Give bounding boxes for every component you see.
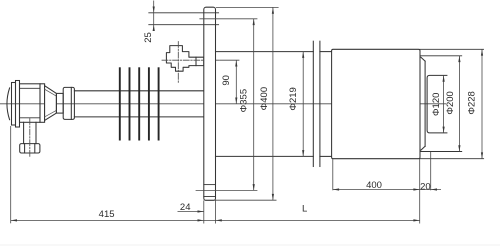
arrows dim phi400 <box>272 7 274 13</box>
arrow dim 24 <box>198 210 204 212</box>
main axis centerline <box>0 103 446 105</box>
svg-text:Φ355: Φ355 <box>239 89 250 112</box>
svg-text:Φ228: Φ228 <box>467 91 478 114</box>
dim 20 right extension <box>430 152 432 190</box>
dim phi400 line <box>272 7 274 200</box>
arrows dim phi120 <box>443 75 445 81</box>
svg-text:L: L <box>302 204 307 215</box>
scan artifact bottom line <box>0 244 500 246</box>
dim phi228 line <box>481 49 483 158</box>
arrows dim L <box>216 219 222 221</box>
dim 90 line <box>235 60 237 104</box>
svg-text:20: 20 <box>420 181 431 192</box>
svg-text:415: 415 <box>99 209 115 220</box>
arrows dim phi219 <box>302 52 304 58</box>
bearing body surface line upper <box>20 87 41 89</box>
flange top edge extension <box>216 6 279 8</box>
svg-text:25: 25 <box>143 32 154 43</box>
svg-text:Φ120: Φ120 <box>431 93 442 116</box>
arrow dim 20 <box>431 188 437 190</box>
arrows dim 25 <box>153 7 155 13</box>
dim 24 line <box>178 211 204 213</box>
grease valve horizontal centerline <box>162 59 220 61</box>
bolt hole bottom upper line <box>204 184 216 186</box>
shaft end disc arc (left face) <box>7 88 10 120</box>
cooling fin 4 <box>148 67 150 140</box>
end cap bottom edge <box>420 151 462 153</box>
drain stem left edge <box>23 122 25 143</box>
nut facet line left <box>24 144 26 153</box>
cooling fin 5 <box>158 67 160 140</box>
flange left face extension down <box>203 200 205 223</box>
bolt hole bottom lower line <box>204 196 216 198</box>
drain stem centerline <box>29 119 31 158</box>
bolt circle line top <box>200 18 257 20</box>
svg-text:Φ200: Φ200 <box>445 91 456 114</box>
arrows dim phi228 <box>481 49 483 55</box>
end cap top chamfer <box>421 57 425 61</box>
flange right face extension down <box>215 200 217 223</box>
neck cylinder <box>56 93 63 113</box>
bearing body cylinder <box>20 84 41 123</box>
grease valve neck joint line <box>195 57 197 65</box>
nut facet line right <box>34 144 36 153</box>
bearing boss outline <box>427 75 447 132</box>
mounting flange plate <box>204 7 216 200</box>
bearing body surface line lower <box>20 117 41 119</box>
collar flange <box>63 87 74 119</box>
motor housing body <box>332 49 420 158</box>
collar inner line <box>70 87 72 119</box>
seam ring left line <box>312 41 314 166</box>
end cap face line <box>424 61 426 146</box>
grease valve vertical centerline <box>177 42 179 83</box>
grease valve body outline <box>166 46 203 72</box>
end cap bottom chamfer <box>421 146 425 150</box>
cone inner edge upper <box>45 89 57 96</box>
arrows dim phi355 <box>253 19 255 25</box>
bolt hole top upper line <box>149 12 219 14</box>
arrows dim phi200 <box>458 56 460 62</box>
svg-text:90: 90 <box>221 75 232 86</box>
seam ring right line <box>319 41 321 166</box>
bolt circle line bottom <box>196 189 257 191</box>
drain stem right edge <box>35 122 37 143</box>
step ring <box>40 84 45 123</box>
dim 90 tick <box>220 59 239 61</box>
stator tube bottom edge <box>216 155 314 157</box>
end cap top edge <box>420 55 462 57</box>
drain knurled nut <box>20 144 40 153</box>
svg-text:Φ400: Φ400 <box>259 87 270 110</box>
bolt hole top lower line <box>149 24 219 26</box>
dim phi219 line <box>302 52 304 157</box>
svg-text:Φ219: Φ219 <box>288 87 299 110</box>
arrows dim 415 <box>11 219 17 221</box>
shaft end disc ring <box>16 81 20 128</box>
dim phi200 line <box>458 56 460 152</box>
dim 400 line <box>333 189 441 191</box>
dim phi355 line <box>253 19 255 191</box>
stator tube top edge <box>216 51 314 53</box>
arrows dim 90 <box>235 60 237 66</box>
dim 25 line <box>153 1 155 30</box>
svg-text:24: 24 <box>180 202 191 213</box>
cone inner edge lower <box>45 110 57 117</box>
housing left edge extension down <box>332 159 334 191</box>
arrows dim 400 <box>333 188 339 190</box>
shaft end disc plate <box>12 83 16 126</box>
svg-text:400: 400 <box>366 180 382 191</box>
shaft bottom edge <box>74 116 203 118</box>
shaft top edge <box>74 90 203 92</box>
housing right boundary extension down <box>419 159 421 224</box>
cooling fin 2 <box>129 67 131 140</box>
cooling fin 1 <box>119 67 121 140</box>
housing top edge extension <box>420 48 484 50</box>
disc left extension down <box>10 126 12 223</box>
flange bottom edge extension <box>205 199 277 201</box>
cone transition <box>45 86 57 121</box>
dim 415-L baseline <box>11 219 420 221</box>
cooling fin 3 <box>138 67 140 140</box>
dim phi120 line <box>443 75 445 132</box>
housing bottom edge extension <box>420 158 484 160</box>
